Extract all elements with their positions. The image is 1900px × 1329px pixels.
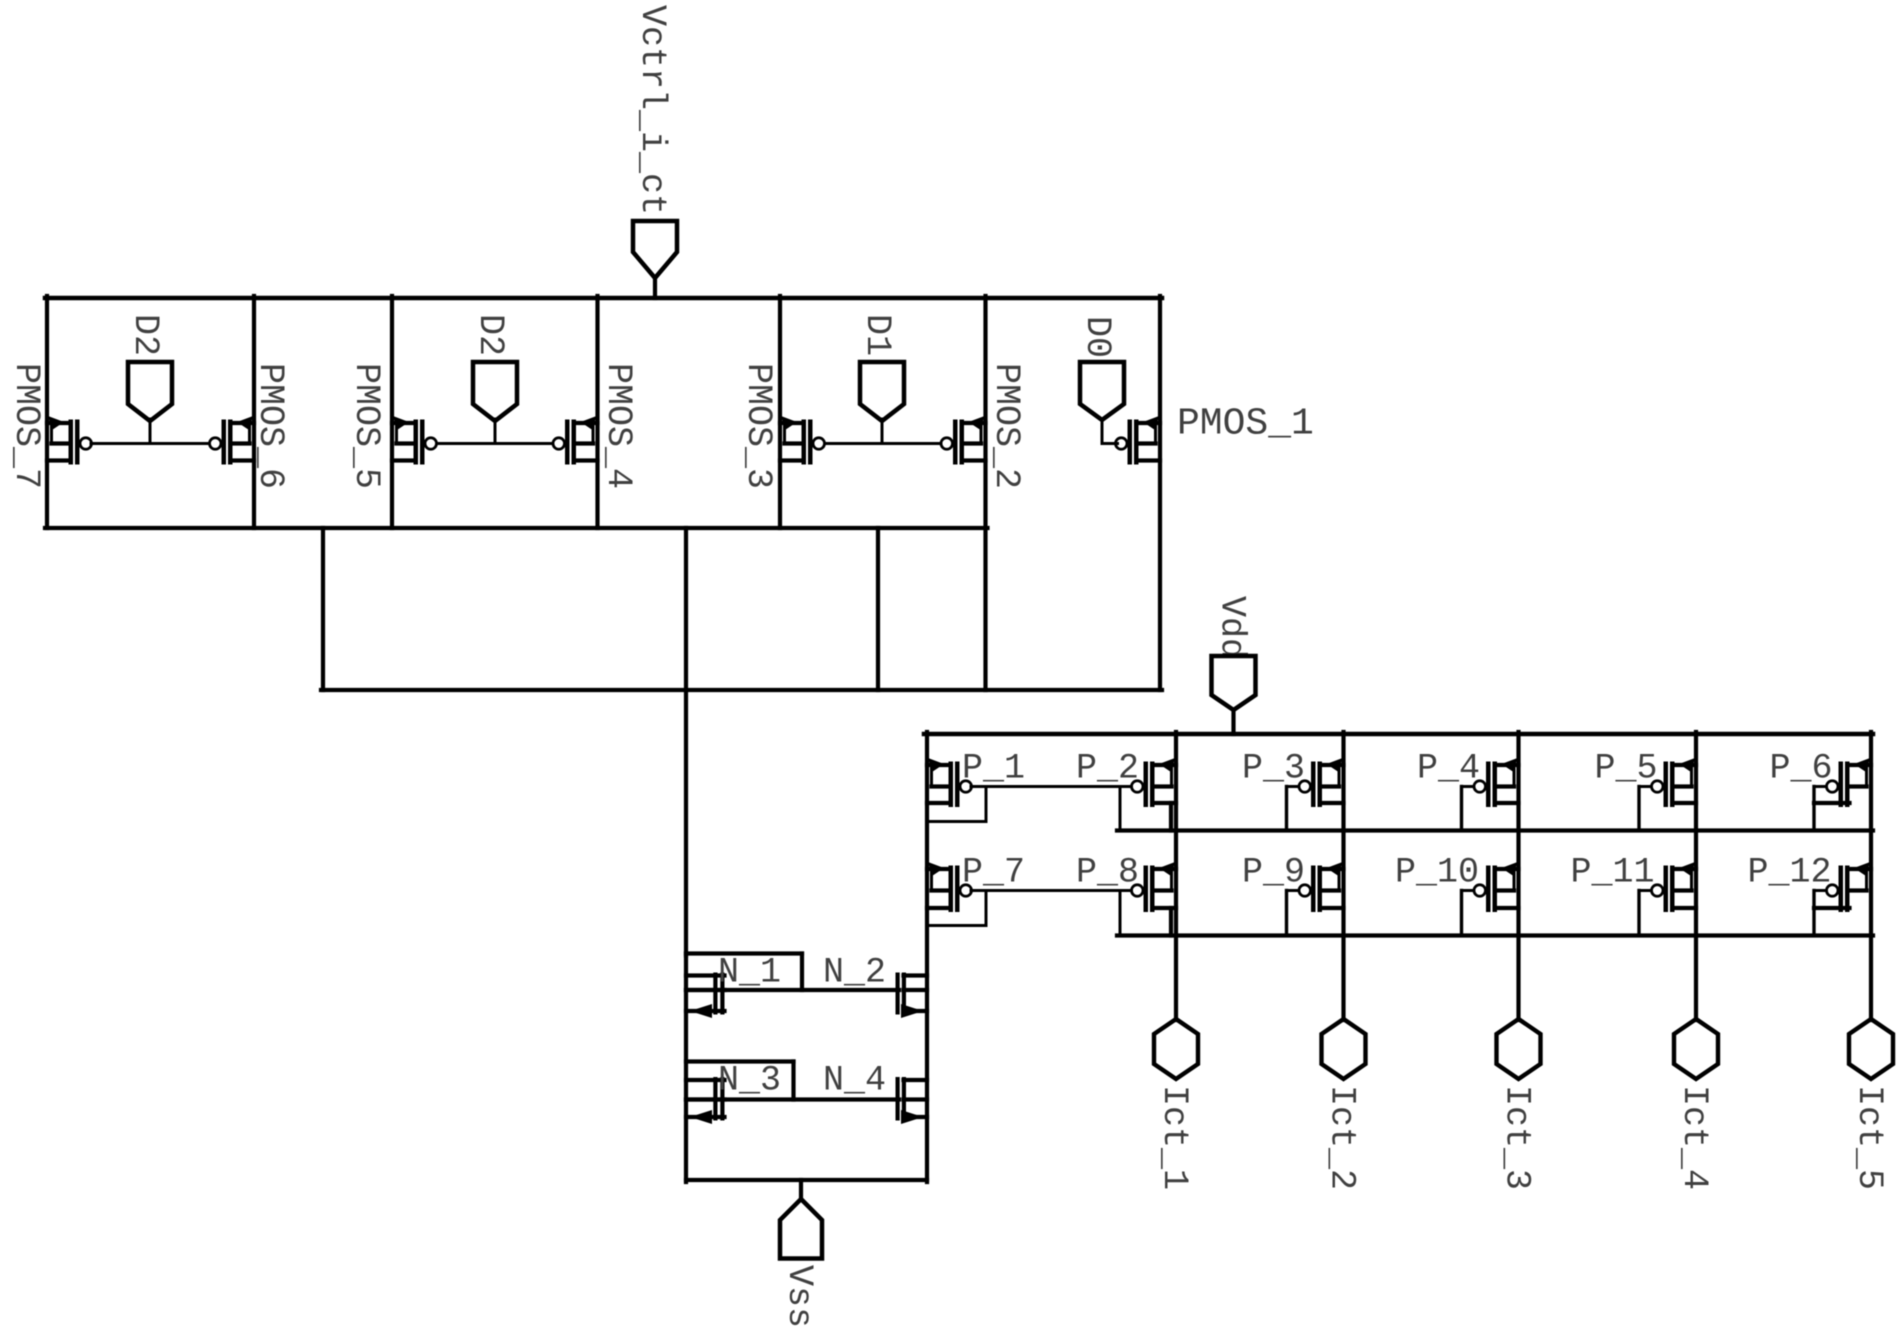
wire gate stub P_12 bbox=[1814, 889, 1826, 892]
transistor P_3 bbox=[1299, 758, 1344, 807]
wire gate stub P_4 bbox=[1462, 785, 1474, 788]
svg-text:P_5: P_5 bbox=[1595, 749, 1658, 789]
wire divider B-right bbox=[595, 296, 599, 528]
transistor PMOS_2 bbox=[941, 416, 986, 465]
wire P-bank left edge bbox=[925, 732, 929, 1182]
svg-text:PMOS_4: PMOS_4 bbox=[598, 363, 638, 489]
svg-text:P_9: P_9 bbox=[1242, 853, 1305, 893]
svg-text:P_6: P_6 bbox=[1770, 749, 1833, 789]
transistor P_4 bbox=[1474, 758, 1519, 807]
wire gate D2a bbox=[91, 442, 208, 445]
transistor PMOS_1 bbox=[1116, 416, 1161, 465]
svg-text:Ict_2: Ict_2 bbox=[1322, 1085, 1362, 1190]
transistor N_1 bbox=[686, 973, 725, 1019]
wire divider Ict_1 column bbox=[1174, 732, 1178, 1020]
svg-text:D2: D2 bbox=[125, 314, 165, 356]
wire gate drop P_10 bbox=[1460, 891, 1463, 936]
wire gate drop P_12 bbox=[1812, 891, 1815, 936]
svg-text:PMOS_3: PMOS_3 bbox=[738, 363, 778, 489]
wire Vss stem bbox=[799, 1180, 803, 1200]
transistor P_7 bbox=[927, 862, 972, 912]
wire P_1 diode tie bbox=[985, 788, 988, 822]
wire divider Ict_4 column bbox=[1694, 732, 1698, 1020]
wire right edge Ict_5 column bbox=[1869, 732, 1873, 1020]
transistor P_6 bbox=[1814, 758, 1871, 807]
wire gate drop P_9 bbox=[1285, 891, 1288, 936]
wire gate tie row2 bbox=[1119, 891, 1122, 936]
wire gate stub P_10 bbox=[1462, 889, 1474, 892]
svg-text:N_1: N_1 bbox=[718, 953, 781, 993]
wire right edge bbox=[1158, 296, 1162, 690]
wire N box bottom bbox=[686, 1178, 927, 1182]
transistor P_8 bbox=[1132, 862, 1177, 912]
transistor PMOS_5 bbox=[392, 416, 437, 465]
svg-text:P_8: P_8 bbox=[1076, 853, 1139, 893]
wire gate D1 bbox=[826, 442, 942, 445]
wire gate rail row1 bbox=[1117, 828, 1873, 832]
wire divider C-right bbox=[983, 296, 987, 690]
wire divider B-left bbox=[390, 296, 394, 528]
transistor PMOS_6 bbox=[210, 416, 255, 465]
wire gate stub P_5 bbox=[1639, 785, 1651, 788]
wire box bottom bbox=[45, 526, 988, 530]
transistor P_1 bbox=[927, 758, 972, 807]
transistor P_2 bbox=[1132, 758, 1177, 807]
transistor P_12 bbox=[1814, 862, 1871, 912]
svg-text:Vss: Vss bbox=[779, 1265, 819, 1328]
wire P_8 drain jog bbox=[1169, 908, 1173, 936]
svg-text:Ict_3: Ict_3 bbox=[1497, 1085, 1537, 1190]
wire N1 gate loop top bbox=[686, 951, 802, 955]
svg-text:P_11: P_11 bbox=[1571, 853, 1655, 893]
wire low horizontal bus bbox=[321, 688, 1162, 692]
svg-text:Vdd: Vdd bbox=[1212, 596, 1252, 659]
svg-text:D1: D1 bbox=[857, 314, 897, 356]
wire gate tie row1 bbox=[1119, 787, 1122, 831]
svg-text:Ict_1: Ict_1 bbox=[1154, 1085, 1194, 1190]
wire drop gap1 bbox=[321, 528, 325, 690]
svg-text:P_7: P_7 bbox=[962, 853, 1025, 893]
wire N block left edge bbox=[684, 954, 688, 1183]
wire gate drop P_11 bbox=[1637, 891, 1640, 936]
wire divider Ict_3 column bbox=[1516, 732, 1520, 1020]
transistor P_9 bbox=[1299, 862, 1344, 912]
pin Vctrl_i_ct bbox=[633, 221, 677, 278]
pin D2 (b) bbox=[473, 362, 517, 421]
wire N1-N2 gate line bbox=[686, 988, 899, 992]
wire main input vertical bbox=[684, 528, 688, 956]
transistor PMOS_7 bbox=[47, 416, 92, 465]
svg-text:P_2: P_2 bbox=[1076, 749, 1139, 789]
wire top bus bbox=[45, 296, 1162, 301]
wire gate row1 pair bbox=[971, 785, 1132, 788]
wire Vctrl stem bbox=[653, 278, 657, 298]
wire gate drop P_3 bbox=[1285, 787, 1288, 831]
wire N3 gate loop top bbox=[686, 1059, 794, 1063]
wire drop cellC bbox=[876, 528, 880, 690]
wire gate D2b bbox=[437, 442, 553, 445]
wire D2b stem bbox=[494, 419, 497, 444]
wire Vdd bus bbox=[924, 732, 1873, 737]
wire gate stub P_6 bbox=[1814, 785, 1826, 788]
wire N1 gate loop right bbox=[800, 954, 804, 991]
pin D0 bbox=[1080, 362, 1124, 420]
transistor N_3 bbox=[686, 1077, 725, 1124]
wire D0 stem bbox=[1101, 419, 1104, 444]
wire gate drop P_6 bbox=[1812, 787, 1815, 831]
transistor N_2 bbox=[896, 973, 928, 1019]
svg-text:P_1: P_1 bbox=[962, 749, 1025, 789]
pin Ict_2 bbox=[1322, 1019, 1366, 1079]
transistor P_5 bbox=[1652, 758, 1697, 807]
pin D2 (a) bbox=[128, 362, 172, 421]
wire gate rail row2 bbox=[1117, 933, 1873, 937]
pin Ict_1 bbox=[1154, 1019, 1198, 1079]
wire Vdd stem bbox=[1231, 712, 1235, 734]
wire P_2 drain jog bbox=[1169, 803, 1173, 831]
wire N3 gate loop right bbox=[791, 1062, 795, 1100]
wire divider A bbox=[252, 296, 256, 528]
wire P_7 diode tie bbox=[985, 892, 988, 926]
wire gate stub P_3 bbox=[1287, 785, 1299, 788]
wire divider Ict_2 column bbox=[1341, 732, 1345, 1020]
svg-text:N_2: N_2 bbox=[823, 953, 886, 993]
wire gate stub P_9 bbox=[1287, 889, 1299, 892]
svg-text:Ict_5: Ict_5 bbox=[1849, 1085, 1889, 1190]
pin D1 bbox=[860, 362, 904, 421]
svg-text:D2: D2 bbox=[470, 314, 510, 356]
wire gate row2 pair bbox=[971, 889, 1132, 892]
svg-text:Vctrl_i_ct: Vctrl_i_ct bbox=[632, 5, 672, 215]
transistor P_10 bbox=[1474, 862, 1519, 912]
wire gate stub P_11 bbox=[1639, 889, 1651, 892]
svg-text:PMOS_6: PMOS_6 bbox=[250, 363, 290, 489]
transistor P_11 bbox=[1652, 862, 1697, 912]
wire N3-N4 gate line bbox=[686, 1097, 899, 1101]
svg-text:P_12: P_12 bbox=[1748, 853, 1832, 893]
wire divider C-left bbox=[778, 296, 782, 528]
svg-text:PMOS_1: PMOS_1 bbox=[1177, 403, 1314, 446]
svg-text:PMOS_2: PMOS_2 bbox=[986, 363, 1026, 489]
svg-text:PMOS_7: PMOS_7 bbox=[6, 363, 46, 489]
svg-text:Ict_4: Ict_4 bbox=[1674, 1085, 1714, 1190]
pin Ict_5 bbox=[1849, 1019, 1893, 1079]
pin Vss bbox=[780, 1199, 822, 1259]
wire gate drop P_5 bbox=[1637, 787, 1640, 831]
svg-text:PMOS_5: PMOS_5 bbox=[346, 363, 386, 489]
wire D1 stem bbox=[881, 419, 884, 444]
transistor PMOS_3 bbox=[780, 416, 825, 465]
pin Vdd bbox=[1212, 656, 1256, 710]
svg-text:N_4: N_4 bbox=[823, 1061, 886, 1101]
svg-text:P_4: P_4 bbox=[1417, 749, 1480, 789]
wire left edge bbox=[45, 296, 49, 528]
transistor PMOS_4 bbox=[553, 416, 598, 465]
svg-text:P_3: P_3 bbox=[1242, 749, 1305, 789]
wire gate drop P_4 bbox=[1460, 787, 1463, 831]
pin Ict_3 bbox=[1497, 1019, 1541, 1079]
svg-text:P_10: P_10 bbox=[1395, 853, 1479, 893]
wire D2a stem bbox=[149, 419, 152, 444]
pin Ict_4 bbox=[1674, 1019, 1718, 1079]
svg-text:D0: D0 bbox=[1077, 316, 1117, 358]
svg-text:N_3: N_3 bbox=[718, 1061, 781, 1101]
transistor N_4 bbox=[896, 1077, 928, 1124]
